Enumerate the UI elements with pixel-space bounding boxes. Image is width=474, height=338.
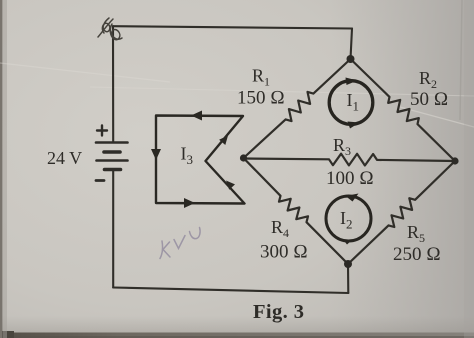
wire bottom node lead bbox=[347, 264, 349, 293]
pen scribble top-left bbox=[98, 18, 122, 40]
svg-text:150 Ω: 150 Ω bbox=[237, 88, 285, 109]
resistor R1 bbox=[244, 59, 351, 158]
node top bbox=[347, 55, 355, 63]
wire battery negative lead bbox=[112, 170, 114, 288]
handwritten KVL bbox=[160, 228, 200, 259]
svg-text:24 V: 24 V bbox=[47, 148, 82, 168]
node left bbox=[240, 154, 247, 161]
mesh current I1 bbox=[329, 78, 373, 129]
svg-text:300 Ω: 300 Ω bbox=[260, 242, 308, 263]
wire drop to top node bbox=[351, 29, 353, 60]
svg-text:100 Ω: 100 Ω bbox=[326, 168, 374, 189]
wire battery positive lead bbox=[112, 26, 114, 142]
resistor R5 bbox=[348, 161, 455, 264]
resistor R3 bbox=[244, 154, 456, 166]
svg-text:250 Ω: 250 Ω bbox=[393, 244, 441, 265]
mesh current I2 bbox=[326, 194, 371, 245]
svg-text:Fig. 3: Fig. 3 bbox=[253, 301, 304, 323]
wire bottom horizontal bbox=[113, 288, 348, 294]
node bottom bbox=[344, 260, 352, 268]
mesh current I3 loop bbox=[156, 116, 245, 204]
node right bbox=[451, 157, 458, 164]
resistor R2 bbox=[351, 59, 456, 161]
wire top horizontal bbox=[113, 26, 352, 28]
resistor R4 bbox=[244, 158, 349, 264]
svg-text:50 Ω: 50 Ω bbox=[410, 89, 448, 110]
battery V1 bbox=[96, 126, 128, 181]
